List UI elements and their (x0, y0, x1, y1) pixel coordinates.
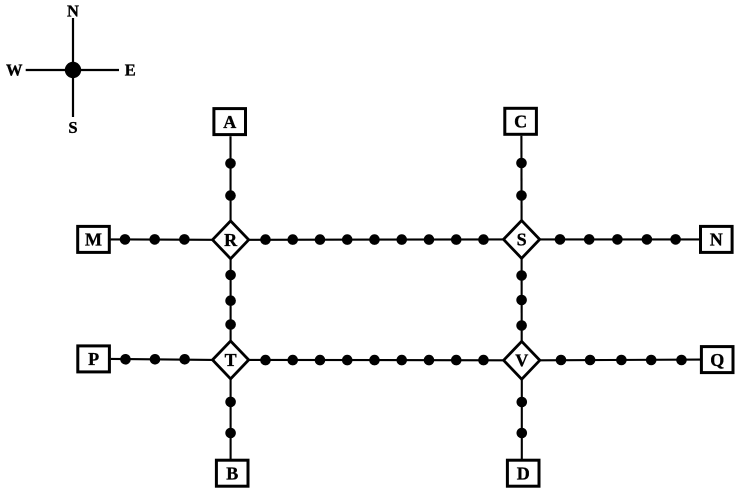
junction dot S-N 4 (642, 234, 653, 245)
node T (diamond) (213, 341, 249, 379)
wire M-R (111, 238, 213, 241)
junction dot T-V 4 (342, 355, 353, 366)
junction dot T-V 8 (451, 355, 462, 366)
junction dot M-R 3 (179, 234, 190, 245)
wire R-T (230, 259, 232, 342)
junction dot S-V 3 (516, 320, 527, 331)
wire R-S (249, 238, 503, 241)
junction dot R-S 2 (287, 234, 298, 245)
node Q (box) (701, 347, 733, 373)
node V (diamond) (504, 341, 540, 379)
junction dot V-Q 5 (676, 355, 687, 366)
junction dot T-V 1 (260, 355, 271, 366)
svg-text:Q: Q (710, 350, 724, 370)
junction dot V-Q 1 (556, 355, 567, 366)
wire V-D (521, 379, 523, 459)
junction dot R-S 9 (478, 234, 489, 245)
node C (box) (505, 108, 537, 134)
node B (box) (216, 460, 248, 486)
junction dot S-V 2 (516, 295, 527, 306)
junction dot C-S 1 (516, 158, 527, 169)
junction dot P-T 3 (179, 354, 190, 365)
compass north-south line (72, 18, 74, 117)
junction dot R-S 4 (342, 234, 353, 245)
node N (box) (701, 226, 733, 252)
wire A-R (229, 136, 231, 221)
junction dot S-N 5 (670, 234, 681, 245)
svg-text:P: P (88, 349, 99, 369)
junction dot P-T 1 (120, 354, 131, 365)
junction dot R-S 8 (451, 234, 462, 245)
junction dot V-D 1 (517, 397, 528, 408)
svg-text:S: S (517, 230, 527, 250)
svg-text:N: N (67, 2, 79, 21)
svg-text:D: D (517, 464, 530, 484)
svg-text:A: A (223, 112, 236, 132)
junction dot T-V 7 (424, 355, 435, 366)
svg-text:W: W (6, 61, 23, 80)
junction dot T-V 2 (287, 355, 298, 366)
compass center dot (65, 62, 81, 78)
node A (box) (214, 109, 246, 135)
junction dot V-Q 2 (585, 355, 596, 366)
svg-text:S: S (68, 118, 77, 137)
node M (box) (78, 226, 110, 252)
junction dot S-N 1 (555, 234, 566, 245)
svg-text:M: M (85, 230, 102, 250)
junction dot T-B 2 (225, 428, 236, 439)
junction dot V-Q 4 (646, 355, 657, 366)
svg-text:B: B (226, 464, 238, 484)
junction dot T-V 5 (369, 355, 380, 366)
junction dot T-V 3 (315, 355, 326, 366)
svg-text:V: V (515, 351, 528, 371)
wire T-B (230, 379, 232, 459)
junction dot V-Q 3 (616, 355, 627, 366)
junction dot R-T 1 (225, 270, 236, 281)
junction dot S-N 3 (612, 234, 623, 245)
node P (box) (78, 346, 110, 372)
svg-text:R: R (224, 230, 238, 250)
junction dot R-S 7 (424, 234, 435, 245)
junction dot T-V 6 (396, 355, 407, 366)
junction dot R-S 3 (315, 234, 326, 245)
wire T-V (249, 359, 504, 361)
node S (diamond) (504, 221, 540, 259)
wire S-V (521, 258, 523, 341)
junction dot S-V 1 (516, 270, 527, 281)
node R (diamond) (213, 221, 249, 259)
wire P-T (111, 359, 213, 360)
compass west-east line (26, 69, 119, 71)
junction dot R-T 2 (225, 295, 236, 306)
junction dot A-R 2 (225, 190, 236, 201)
wire V-Q (540, 359, 700, 362)
wire C-S (520, 136, 522, 221)
junction dot R-S 5 (369, 234, 380, 245)
svg-text:N: N (710, 230, 723, 250)
svg-text:E: E (125, 61, 136, 80)
junction dot V-D 2 (517, 428, 528, 439)
junction dot M-R 2 (149, 234, 160, 245)
junction dot R-S 1 (260, 234, 271, 245)
junction dot R-S 6 (396, 234, 407, 245)
node D (box) (507, 460, 539, 486)
junction dot C-S 2 (516, 190, 527, 201)
svg-text:T: T (225, 350, 237, 370)
svg-text:C: C (514, 112, 527, 132)
junction dot T-B 1 (225, 397, 236, 408)
junction dot T-V 9 (478, 355, 489, 366)
wire S-N (540, 238, 699, 240)
junction dot A-R 1 (225, 158, 236, 169)
junction dot S-N 2 (584, 234, 595, 245)
junction dot P-T 2 (150, 354, 161, 365)
junction dot M-R 1 (120, 234, 131, 245)
junction dot R-T 3 (225, 319, 236, 330)
